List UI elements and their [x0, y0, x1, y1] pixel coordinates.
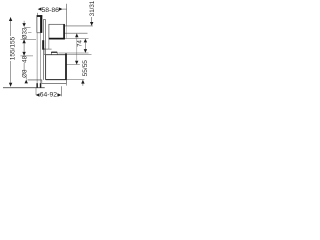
- svg-text:55/55: 55/55: [82, 60, 89, 77]
- svg-text:58-86: 58-86: [42, 7, 60, 14]
- svg-text:74: 74: [77, 40, 84, 47]
- svg-text:48: 48: [21, 55, 28, 62]
- svg-text:Ø8: Ø8: [21, 69, 28, 78]
- svg-text:Ø33: Ø33: [21, 27, 28, 39]
- svg-text:64-92: 64-92: [40, 92, 58, 99]
- svg-text:155/155: 155/155: [9, 36, 16, 60]
- svg-text:31/31: 31/31: [89, 0, 96, 16]
